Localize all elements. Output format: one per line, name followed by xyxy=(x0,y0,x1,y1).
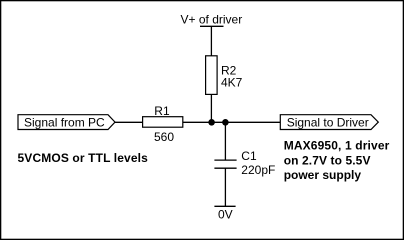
svg-text:Signal to Driver: Signal to Driver xyxy=(287,115,369,129)
svg-text:MAX6950, 1 driver: MAX6950, 1 driver xyxy=(284,139,390,153)
svg-text:on 2.7V to 5.5V: on 2.7V to 5.5V xyxy=(284,153,371,167)
svg-text:V+ of driver: V+ of driver xyxy=(181,12,243,26)
svg-text:560: 560 xyxy=(154,130,174,144)
svg-text:C1: C1 xyxy=(241,149,257,163)
svg-text:5VCMOS or TTL levels: 5VCMOS or TTL levels xyxy=(18,151,149,165)
svg-text:Signal from PC: Signal from PC xyxy=(24,115,105,129)
svg-text:R1: R1 xyxy=(154,104,170,118)
svg-text:220pF: 220pF xyxy=(241,163,275,177)
svg-text:power supply: power supply xyxy=(284,168,362,182)
svg-text:0V: 0V xyxy=(218,208,233,222)
svg-text:4K7: 4K7 xyxy=(221,75,243,89)
